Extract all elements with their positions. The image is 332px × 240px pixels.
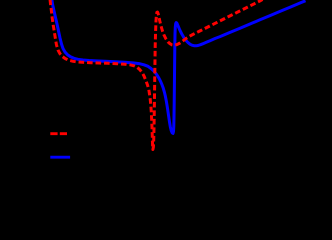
legend blue solid sample — [50, 156, 70, 159]
blue solid curve — [52, 0, 306, 133]
legend red dashed sample — [50, 132, 67, 135]
red dashed curve — [50, 0, 263, 150]
